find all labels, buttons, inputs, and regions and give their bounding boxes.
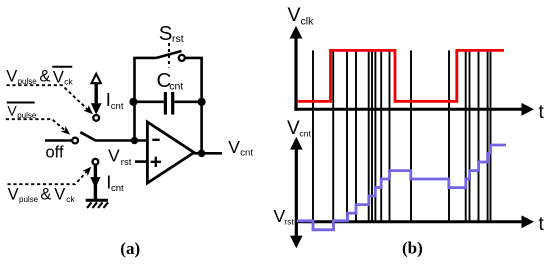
svg-text:(b): (b) bbox=[402, 238, 423, 257]
svg-text:V: V bbox=[53, 68, 64, 86]
node capacitor right bbox=[198, 98, 206, 106]
svg-text:t: t bbox=[539, 214, 545, 235]
clock edge marker 10 bbox=[410, 50, 412, 221]
axis V_cnt vertical double arrow bbox=[295, 147, 298, 237]
svg-text:V: V bbox=[7, 102, 17, 118]
ground bbox=[86, 200, 108, 208]
clock edge marker 13 bbox=[469, 50, 471, 221]
clock edge marker 11 bbox=[448, 50, 450, 221]
clock edge marker 16 bbox=[490, 50, 492, 221]
svg-text:rst: rst bbox=[121, 157, 132, 168]
svg-text:V: V bbox=[287, 118, 300, 139]
clock edge marker 5 bbox=[368, 50, 370, 221]
node capacitor left bbox=[129, 98, 137, 106]
clock edge marker 9 bbox=[389, 50, 391, 221]
wire left vertical of feedback loop bbox=[133, 58, 136, 141]
label V_pulse-bar (middle control label) bbox=[7, 102, 37, 119]
dashed actuation stem of S_rst bbox=[168, 43, 170, 68]
clock edge marker 3 bbox=[346, 50, 348, 221]
wire dashed leader from top label to top contact bbox=[7, 85, 89, 110]
svg-text:V: V bbox=[6, 68, 17, 86]
svg-text:V: V bbox=[108, 146, 120, 166]
clock edge marker 4 bbox=[355, 50, 357, 221]
op-amp plus marker bbox=[151, 161, 161, 163]
wire top rail left segment bbox=[133, 57, 156, 60]
svg-text:cnt: cnt bbox=[111, 101, 124, 112]
current source I_cnt (bottom, discharging) bbox=[90, 159, 124, 200]
svg-text:off: off bbox=[46, 144, 64, 162]
svg-text:ck: ck bbox=[64, 77, 73, 87]
node at inverting input / integrator summing junction bbox=[131, 137, 138, 144]
clock edge marker 8 bbox=[380, 50, 382, 221]
clock edge marker 7 bbox=[374, 50, 376, 221]
waveform V_clk (red clock) bbox=[297, 50, 504, 101]
svg-text:clk: clk bbox=[301, 16, 315, 28]
wire dashed leader from bottom label to bottom contact bbox=[8, 171, 88, 184]
wire dashed leader from middle label to off contact bbox=[6, 119, 67, 131]
clock edge marker 14 bbox=[478, 50, 480, 221]
svg-text:V: V bbox=[8, 186, 19, 204]
wire capacitor rail right bbox=[174, 101, 201, 104]
op-amp minus marker bbox=[152, 139, 159, 141]
wire V_rst to non-inverting input bbox=[135, 160, 147, 163]
clock edge marker 6 bbox=[371, 50, 373, 221]
svg-text:rst: rst bbox=[284, 217, 294, 227]
off switch contact wire bbox=[45, 139, 72, 142]
arrowhead of bottom leader bbox=[82, 167, 91, 177]
wire right vertical of feedback loop bbox=[200, 58, 203, 153]
clock edge marker 12 bbox=[465, 50, 467, 221]
arrowhead of top leader bbox=[84, 105, 94, 114]
op-amp U1 bbox=[147, 122, 194, 183]
svg-text:cnt: cnt bbox=[111, 183, 124, 194]
axis t (top) bbox=[294, 108, 523, 111]
svg-text:t: t bbox=[539, 102, 545, 123]
svg-text:V: V bbox=[228, 137, 240, 157]
node output bbox=[198, 150, 206, 158]
svg-text:V: V bbox=[288, 4, 301, 26]
svg-text:cnt: cnt bbox=[240, 148, 253, 159]
axis V_clk vertical bbox=[294, 36, 297, 111]
svg-text:V: V bbox=[54, 186, 65, 204]
clock edge marker 2 bbox=[332, 50, 334, 221]
svg-text:cnt: cnt bbox=[300, 129, 312, 139]
wire top rail right segment bbox=[185, 57, 203, 60]
svg-text:&: & bbox=[40, 186, 51, 204]
svg-text:&: & bbox=[39, 67, 50, 85]
axis t (bottom) bbox=[295, 220, 524, 223]
arrowhead of middle leader bbox=[61, 126, 71, 135]
current source I_cnt (top, charging) bbox=[91, 74, 124, 121]
svg-text:cnt: cnt bbox=[169, 81, 183, 93]
switch S_rst contact circle bbox=[179, 55, 185, 61]
off contact circle bbox=[72, 138, 78, 144]
wire from switch pole to op-amp inverting input bbox=[95, 139, 147, 142]
label V_pulse & V_ck (bottom control label) bbox=[8, 186, 76, 204]
svg-text:pulse: pulse bbox=[19, 195, 39, 204]
label V_pulse & V_ck-bar (top control label) bbox=[6, 67, 73, 87]
wire op-amp output bbox=[194, 152, 222, 155]
svg-text:rst: rst bbox=[172, 33, 184, 45]
svg-text:ck: ck bbox=[66, 194, 75, 204]
switch blade (open, pointing to off contact) bbox=[80, 132, 95, 140]
wire capacitor rail left bbox=[133, 101, 164, 104]
waveform V_cnt (purple staircase) bbox=[297, 145, 506, 230]
capacitor C_cnt plates bbox=[164, 92, 167, 115]
svg-text:S: S bbox=[159, 22, 173, 45]
clock edge marker 15 bbox=[487, 50, 489, 221]
clock edge marker 1 bbox=[312, 50, 314, 221]
switch S_rst blade bbox=[157, 51, 182, 58]
svg-text:(a): (a) bbox=[120, 239, 140, 258]
